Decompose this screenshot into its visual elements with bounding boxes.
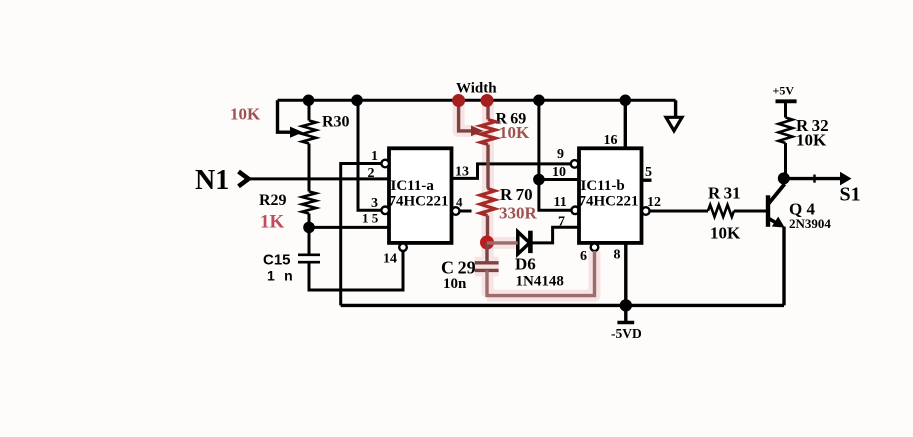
wire rail to pin10 node	[537, 100, 540, 179]
svg-text:10n: 10n	[443, 276, 467, 292]
diode D6	[518, 231, 530, 255]
svg-text:1N4148: 1N4148	[516, 274, 564, 290]
ground symbol	[666, 117, 682, 131]
svg-text:IC11-a: IC11-a	[391, 178, 435, 194]
svg-text:14: 14	[383, 252, 397, 267]
svg-text:12: 12	[647, 195, 661, 210]
node red top rail 1	[452, 94, 465, 107]
svg-text:10K: 10K	[499, 123, 530, 142]
pin 1 circle	[381, 160, 389, 168]
ground branch wire	[674, 100, 677, 117]
wire C29 bottom to pin 6 (red)	[487, 251, 595, 296]
wire R30 wiper loop	[278, 100, 294, 132]
svg-text:10: 10	[552, 165, 566, 180]
node top rail pin3	[351, 95, 363, 107]
wiper arrowhead R69	[471, 126, 484, 137]
wire pin 3 to top rail	[358, 100, 381, 210]
pin 6 circle	[591, 243, 599, 251]
node R29/C15 junction	[303, 222, 315, 234]
wiper arrowhead R30	[290, 127, 303, 138]
svg-text:74HC221: 74HC221	[579, 194, 639, 210]
resistor R31	[708, 205, 734, 217]
svg-text:R 31: R 31	[708, 184, 741, 203]
pin 14 circle	[399, 243, 407, 251]
svg-text:11: 11	[554, 195, 567, 210]
svg-text:2N3904: 2N3904	[789, 216, 831, 231]
node top rail pin16	[620, 95, 632, 107]
svg-text:7: 7	[558, 215, 565, 230]
node top rail R30	[303, 95, 315, 107]
resistor R32	[784, 101, 787, 117]
resistor R30	[302, 121, 316, 144]
svg-text:2: 2	[368, 166, 375, 181]
pin 3 circle	[381, 207, 389, 215]
svg-text:R29: R29	[259, 192, 287, 209]
svg-text:1K: 1K	[260, 212, 285, 233]
pin 5 stub	[642, 178, 652, 181]
wire pin 13 to pin 9	[452, 164, 571, 179]
svg-text:1 n: 1 n	[267, 268, 293, 284]
wire bottom rail	[341, 304, 784, 307]
wire pin 1 to bottom rail	[341, 164, 382, 306]
svg-text:4: 4	[456, 195, 463, 210]
wire node to pin 11	[539, 180, 572, 211]
tick on S1 wire	[813, 175, 815, 183]
svg-text:1: 1	[371, 149, 378, 164]
node pin10 junction	[533, 174, 545, 186]
svg-text:6: 6	[580, 249, 587, 264]
wire red node to D6 anode	[487, 241, 518, 244]
wire S1 output	[784, 177, 842, 180]
wire Q4 collector	[782, 178, 785, 184]
node top rail pin10/11	[533, 95, 545, 107]
node red top rail 2	[481, 94, 494, 107]
power -5VD stub	[624, 305, 627, 321]
resistor R70 (red)	[480, 189, 495, 216]
capacitor C29 (red)	[485, 243, 488, 262]
wire junction to pin 15	[309, 226, 389, 229]
svg-text:R 70: R 70	[500, 185, 533, 204]
svg-text:9: 9	[557, 147, 564, 162]
svg-text:3: 3	[371, 196, 378, 211]
svg-text:S1: S1	[840, 184, 861, 206]
wire red dot to R69	[486, 101, 489, 120]
pin 11 circle	[571, 207, 579, 215]
svg-text:5: 5	[645, 165, 652, 180]
svg-text:10K: 10K	[710, 224, 741, 243]
wire R30 to R29	[308, 144, 311, 192]
svg-text:Width: Width	[456, 81, 497, 97]
svg-text:D6: D6	[515, 255, 536, 274]
wire R70 to red node	[486, 216, 489, 243]
svg-text:-5VD: -5VD	[611, 326, 642, 341]
wire C15 bottom to pin 14	[309, 251, 403, 290]
svg-text:C 29: C 29	[441, 258, 476, 278]
wire R31 to Q4 base	[734, 210, 766, 213]
svg-text:16: 16	[604, 133, 618, 148]
wire pin 12 to R31	[650, 210, 708, 213]
pin 4 circle	[452, 207, 460, 215]
wire top rail	[278, 99, 676, 102]
wire rail to pin 16	[624, 100, 627, 148]
pin 12 circle	[642, 207, 650, 215]
svg-text:1 5: 1 5	[362, 211, 379, 226]
capacitor C15	[308, 227, 311, 254]
resistor R69 (red)	[481, 120, 496, 145]
node red R70/C29/D6	[480, 236, 494, 250]
node bottom rail -5VD	[620, 299, 632, 311]
svg-text:+5V: +5V	[773, 84, 795, 98]
node collector junction	[778, 172, 790, 184]
wire D6 cathode to pin 7	[530, 227, 578, 243]
wire node to pin 10	[539, 178, 579, 181]
svg-text:74HC221: 74HC221	[389, 194, 449, 210]
svg-text:IC11-b: IC11-b	[581, 178, 625, 194]
IC U2 IC11-b box	[579, 148, 642, 243]
pin 9 circle	[571, 160, 579, 168]
wire pin 8 to bottom rail	[624, 243, 627, 306]
svg-text:10K: 10K	[230, 105, 261, 124]
pin 4 stub	[460, 210, 472, 213]
arrowhead S1	[840, 172, 852, 186]
wire R69 to R70 (red)	[486, 145, 489, 189]
IC U1 IC11-a box	[389, 148, 452, 243]
svg-text:8: 8	[614, 248, 621, 263]
svg-text:C15: C15	[263, 252, 291, 269]
wire Q4 emitter to bottom rail	[782, 227, 785, 306]
svg-text:10K: 10K	[796, 131, 827, 150]
halo under red traces	[459, 101, 595, 296]
svg-text:R30: R30	[322, 114, 350, 131]
wire N1 to pin 2	[247, 177, 389, 180]
svg-text:N1: N1	[195, 165, 229, 196]
transistor Q4	[766, 195, 770, 227]
resistor R29	[302, 192, 316, 214]
svg-text:330R: 330R	[499, 204, 538, 223]
wire R69 wiper loop (red)	[459, 101, 474, 131]
input arrow N1	[239, 172, 249, 187]
